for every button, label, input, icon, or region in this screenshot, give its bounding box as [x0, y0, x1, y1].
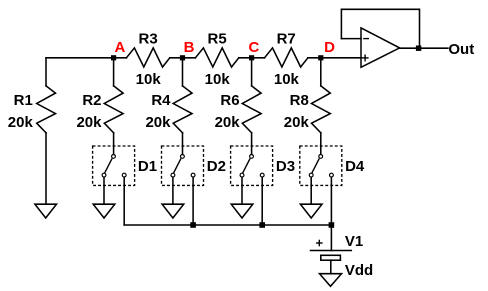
wire D2 left throw to ground	[172, 177, 174, 204]
resistor R5	[195, 48, 238, 67]
node D	[318, 55, 323, 60]
svg-text:10k: 10k	[274, 71, 300, 88]
wire node D to R8	[320, 58, 322, 86]
wire op-amp inverting input	[341, 38, 361, 40]
junction D4-bus-V1	[329, 222, 335, 228]
ground	[231, 204, 253, 218]
svg-text:R8: R8	[290, 92, 309, 109]
wire node A to R2	[113, 58, 115, 86]
svg-text:C: C	[249, 39, 260, 56]
resistor R6	[242, 86, 261, 133]
resistor R2	[104, 86, 123, 133]
wire op-amp output	[400, 47, 448, 49]
svg-text:10k: 10k	[136, 71, 162, 88]
wire bus to V1	[330, 225, 332, 251]
svg-text:R4: R4	[151, 92, 171, 109]
resistor R3	[126, 48, 169, 67]
ground	[35, 204, 57, 218]
junction D3-bus	[259, 222, 265, 228]
wire R1 top	[45, 58, 47, 86]
wire D3 left throw to ground	[241, 177, 243, 204]
node C	[249, 55, 254, 60]
wire R2 to switch D1	[113, 133, 115, 155]
junction output-feedback	[416, 46, 421, 51]
wire D4 left throw to ground	[310, 177, 312, 204]
wire D2 right throw to bus	[192, 177, 194, 225]
ground	[93, 204, 115, 218]
svg-text:D2: D2	[207, 158, 226, 175]
wire bottom bus	[124, 224, 331, 226]
svg-text:20k: 20k	[76, 114, 102, 131]
svg-text:Vdd: Vdd	[345, 262, 373, 279]
ground	[162, 204, 184, 218]
wire rail R5-R7	[239, 57, 265, 59]
wire node B to R4	[182, 58, 184, 86]
wire rail left	[46, 57, 126, 59]
svg-text:Out: Out	[448, 41, 474, 58]
wire rail R3-R5	[170, 57, 196, 59]
wire D3 right throw to bus	[261, 177, 263, 225]
op-amp U1	[361, 28, 400, 67]
resistor R7	[265, 48, 308, 67]
svg-text:R2: R2	[82, 92, 101, 109]
wire node C to R6	[251, 58, 253, 86]
wire D4 right throw to bus	[330, 177, 332, 225]
svg-text:20k: 20k	[284, 114, 310, 131]
switch D2	[162, 146, 204, 185]
svg-text:D1: D1	[138, 158, 157, 175]
svg-text:A: A	[115, 39, 126, 56]
wire R4 to switch D2	[182, 133, 184, 155]
resistor R4	[173, 86, 192, 133]
svg-text:D4: D4	[345, 158, 365, 175]
wire feedback loop	[341, 9, 419, 48]
ground	[300, 204, 322, 218]
node A	[111, 55, 116, 60]
resistor R1	[37, 86, 56, 133]
wire D1 left throw to ground	[103, 177, 105, 204]
wire R6 to switch D3	[251, 133, 253, 155]
ground	[320, 274, 342, 287]
switch D3	[231, 146, 273, 185]
svg-text:R1: R1	[14, 92, 33, 109]
svg-text:20k: 20k	[215, 114, 241, 131]
svg-text:10k: 10k	[205, 71, 231, 88]
svg-text:20k: 20k	[145, 114, 171, 131]
wire R8 to switch D4	[320, 133, 322, 155]
voltage source V1	[311, 240, 352, 274]
wire R1 bottom	[45, 133, 47, 204]
resistor R8	[312, 86, 331, 133]
svg-text:D3: D3	[276, 158, 295, 175]
svg-text:D: D	[324, 39, 335, 56]
svg-text:R7: R7	[277, 31, 296, 48]
svg-text:B: B	[184, 39, 195, 56]
switch D4	[300, 146, 342, 185]
junction D2-bus	[190, 222, 196, 228]
svg-text:R5: R5	[208, 31, 227, 48]
wire D1 right throw to bus	[123, 177, 125, 225]
svg-text:20k: 20k	[8, 114, 34, 131]
svg-text:V1: V1	[345, 233, 363, 250]
wire rail R7 to op-amp	[308, 57, 361, 59]
switch D1	[93, 146, 135, 185]
svg-text:R6: R6	[220, 92, 239, 109]
svg-text:R3: R3	[139, 31, 158, 48]
node B	[180, 55, 185, 60]
